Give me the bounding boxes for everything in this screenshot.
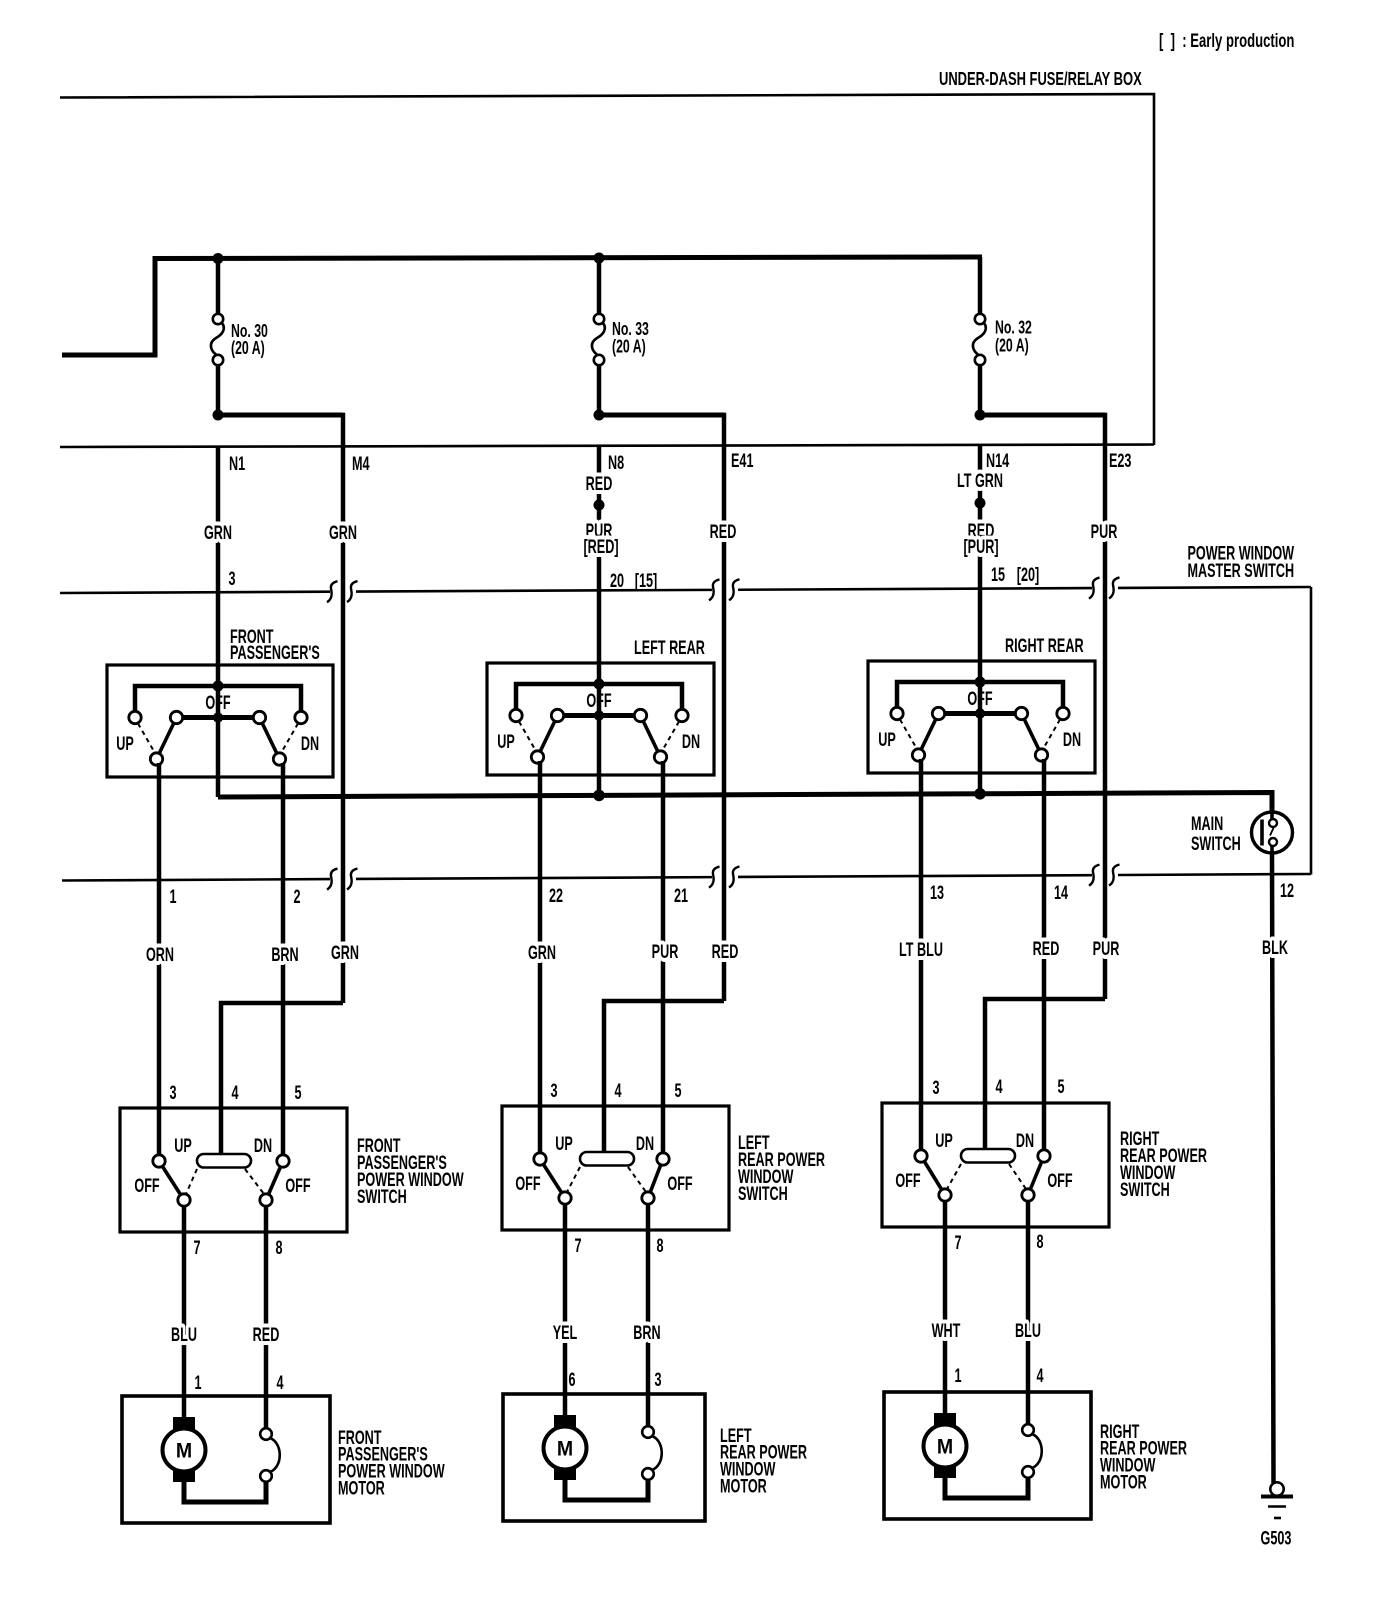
svg-text:3: 3	[550, 1080, 557, 1101]
svg-text:8: 8	[275, 1237, 282, 1258]
svg-text:DN: DN	[1016, 1130, 1034, 1151]
svg-text:RED: RED	[586, 473, 613, 494]
svg-text:BLU: BLU	[171, 1324, 197, 1345]
svg-text:(20 A): (20 A)	[612, 337, 646, 357]
svg-text:GRN: GRN	[331, 942, 359, 963]
svg-text:8: 8	[1036, 1231, 1043, 1252]
svg-text:14: 14	[1054, 882, 1068, 903]
svg-text:OFF: OFF	[967, 688, 992, 709]
svg-text:2: 2	[293, 886, 300, 907]
svg-text:21: 21	[674, 885, 688, 906]
svg-text:DN: DN	[636, 1133, 654, 1154]
svg-text:RED: RED	[253, 1324, 280, 1345]
svg-text:ORN: ORN	[146, 944, 174, 965]
svg-text:1: 1	[169, 886, 176, 907]
svg-text:(20 A): (20 A)	[231, 339, 265, 359]
svg-text:3: 3	[169, 1082, 176, 1103]
svg-text:[PUR]: [PUR]	[963, 536, 998, 557]
svg-text:OFF: OFF	[205, 692, 230, 713]
svg-text:LEFT REAR: LEFT REAR	[634, 637, 705, 658]
svg-text:GRN: GRN	[329, 522, 357, 543]
svg-text:LT BLU: LT BLU	[899, 939, 943, 960]
svg-text:UP: UP	[497, 731, 515, 752]
svg-text:[15]: [15]	[635, 570, 657, 591]
svg-text:N1: N1	[229, 453, 245, 474]
svg-text:M: M	[937, 1436, 953, 1459]
svg-text:4: 4	[614, 1080, 621, 1101]
svg-text:OFF: OFF	[515, 1173, 540, 1194]
svg-text:SWITCH: SWITCH	[357, 1186, 407, 1207]
svg-text:LT GRN: LT GRN	[957, 470, 1003, 491]
svg-text:4: 4	[995, 1076, 1002, 1097]
svg-text:5: 5	[674, 1080, 681, 1101]
svg-text:(20 A): (20 A)	[995, 336, 1029, 356]
svg-text:12: 12	[1280, 880, 1294, 901]
svg-text:BLU: BLU	[1015, 1320, 1041, 1341]
svg-text:5: 5	[294, 1082, 301, 1103]
svg-text:G503: G503	[1261, 1528, 1292, 1549]
svg-text:M: M	[176, 1440, 192, 1463]
svg-text:MOTOR: MOTOR	[1100, 1472, 1147, 1493]
svg-text:YEL: YEL	[553, 1322, 578, 1343]
svg-text:E41: E41	[731, 450, 753, 471]
svg-text:3: 3	[654, 1369, 661, 1390]
svg-text:8: 8	[656, 1235, 663, 1256]
svg-text:OFF: OFF	[1047, 1170, 1072, 1191]
svg-text:UP: UP	[555, 1133, 573, 1154]
svg-text:E23: E23	[1109, 450, 1131, 471]
svg-text:5: 5	[1057, 1076, 1064, 1097]
svg-text:DN: DN	[1063, 729, 1081, 750]
svg-text:OFF: OFF	[895, 1170, 920, 1191]
svg-text:[RED]: [RED]	[583, 536, 618, 557]
svg-text:N8: N8	[608, 452, 624, 473]
svg-text:UP: UP	[116, 733, 134, 754]
svg-text:GRN: GRN	[204, 522, 232, 543]
svg-text:4: 4	[276, 1372, 283, 1393]
svg-text:OFF: OFF	[285, 1175, 310, 1196]
svg-text:7: 7	[574, 1235, 581, 1256]
svg-text:WHT: WHT	[932, 1320, 961, 1341]
svg-text:OFF: OFF	[586, 690, 611, 711]
svg-text:RIGHT REAR: RIGHT REAR	[1005, 635, 1084, 656]
svg-text:[20]: [20]	[1017, 564, 1039, 585]
svg-text:DN: DN	[682, 731, 700, 752]
svg-text:GRN: GRN	[528, 942, 556, 963]
svg-text:UNDER-DASH FUSE/RELAY BOX: UNDER-DASH FUSE/RELAY BOX	[939, 70, 1142, 90]
svg-text:PASSENGER'S: PASSENGER'S	[230, 642, 320, 663]
svg-text:PUR: PUR	[652, 941, 679, 962]
svg-text:SWITCH: SWITCH	[1191, 833, 1241, 854]
svg-text:OFF: OFF	[134, 1175, 159, 1196]
svg-text:RED: RED	[1033, 938, 1060, 959]
svg-text:PUR: PUR	[1091, 521, 1118, 542]
svg-text:MAIN: MAIN	[1191, 813, 1223, 834]
svg-text:4: 4	[1036, 1365, 1043, 1386]
svg-text:MOTOR: MOTOR	[338, 1478, 385, 1499]
svg-text:3: 3	[228, 568, 235, 589]
svg-text:4: 4	[231, 1082, 238, 1103]
svg-text:[ ] : Early production: [ ] : Early production	[1159, 31, 1294, 52]
svg-text:1: 1	[194, 1372, 201, 1393]
svg-text:7: 7	[193, 1237, 200, 1258]
svg-text:15: 15	[991, 564, 1005, 585]
svg-text:BRN: BRN	[633, 1322, 660, 1343]
svg-text:UP: UP	[878, 729, 896, 750]
svg-text:SWITCH: SWITCH	[1120, 1179, 1170, 1200]
svg-text:MOTOR: MOTOR	[720, 1476, 767, 1497]
svg-text:BLK: BLK	[1262, 937, 1288, 958]
svg-text:13: 13	[930, 882, 944, 903]
svg-text:RED: RED	[710, 521, 737, 542]
svg-text:6: 6	[568, 1369, 575, 1390]
svg-text:PUR: PUR	[1093, 938, 1120, 959]
svg-text:3: 3	[932, 1077, 939, 1098]
svg-text:DN: DN	[254, 1135, 272, 1156]
svg-text:20: 20	[610, 570, 624, 591]
svg-text:BRN: BRN	[271, 944, 298, 965]
svg-text:OFF: OFF	[667, 1173, 692, 1194]
svg-text:22: 22	[549, 885, 563, 906]
svg-text:RED: RED	[712, 941, 739, 962]
svg-text:UP: UP	[935, 1130, 953, 1151]
svg-text:1: 1	[954, 1365, 961, 1386]
svg-text:MASTER SWITCH: MASTER SWITCH	[1187, 560, 1294, 581]
svg-text:M: M	[557, 1438, 573, 1461]
svg-text:DN: DN	[301, 733, 319, 754]
svg-text:UP: UP	[174, 1135, 192, 1156]
svg-text:7: 7	[954, 1232, 961, 1253]
svg-text:N14: N14	[986, 450, 1009, 471]
svg-text:SWITCH: SWITCH	[738, 1183, 788, 1204]
svg-text:M4: M4	[352, 453, 370, 474]
